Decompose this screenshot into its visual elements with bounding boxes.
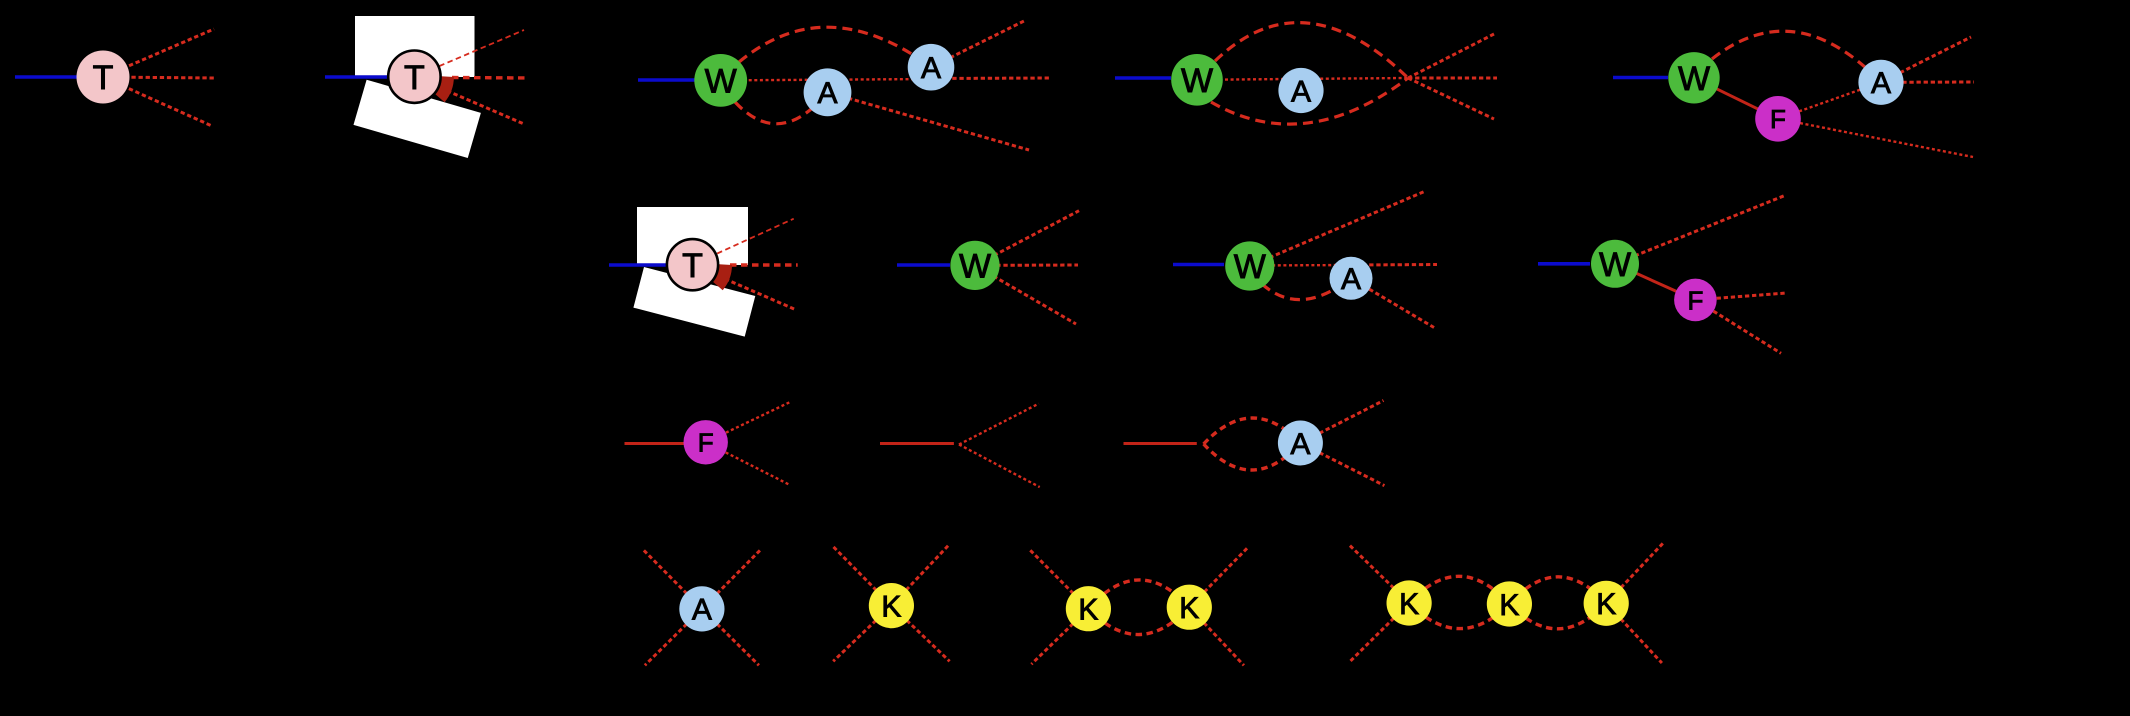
dotted leg down-right from F xyxy=(1695,300,1781,353)
dark red wedge xyxy=(713,264,732,290)
lower dashed arc of loop xyxy=(1204,443,1301,470)
thin dashed leg up-right xyxy=(693,219,794,265)
upper dashed arc K1-K2 xyxy=(1409,576,1509,604)
dotted leg up-right xyxy=(891,545,948,605)
blue external line xyxy=(609,263,670,267)
upper dashed arc W to A xyxy=(1712,31,1881,82)
vertex W xyxy=(1591,240,1639,288)
svg-text:T: T xyxy=(93,59,114,97)
blue external line xyxy=(638,78,695,82)
svg-text:W: W xyxy=(959,248,991,286)
svg-text:A: A xyxy=(921,52,941,85)
lower dashed arc K2-K3 xyxy=(1509,603,1606,629)
dotted leg down-left xyxy=(645,609,702,665)
svg-text:T: T xyxy=(682,247,703,285)
vertex K2 xyxy=(1167,585,1212,630)
lower dashed arc W to A1 xyxy=(735,92,828,123)
vertex W xyxy=(950,241,999,290)
vertex T xyxy=(77,51,130,104)
blue external line xyxy=(1115,76,1171,80)
svg-text:K: K xyxy=(1399,588,1419,621)
dotted leg down-right xyxy=(891,606,949,662)
fine dotted leg up-right xyxy=(959,404,1039,445)
vertex W xyxy=(694,54,747,107)
dotted leg down-right xyxy=(414,77,524,124)
dotted leg up-right xyxy=(975,211,1079,266)
svg-text:A: A xyxy=(1291,75,1311,108)
solid red line W to F xyxy=(1694,78,1778,119)
svg-text:K: K xyxy=(1596,588,1616,621)
svg-text:W: W xyxy=(1678,60,1710,98)
svg-text:W: W xyxy=(705,63,737,101)
vertex K2 xyxy=(1487,581,1532,626)
lower dashed arc W to junction xyxy=(1211,78,1408,124)
dotted leg down-right from junction xyxy=(1408,78,1494,119)
blue external line xyxy=(1538,262,1590,266)
dotted leg down-right K2 xyxy=(1189,607,1244,665)
chunky dotted after A xyxy=(1355,263,1437,267)
fine dotted leg F down-right xyxy=(1778,119,1973,157)
dotted leg up-right from A xyxy=(1300,401,1383,444)
vertex K3 xyxy=(1584,581,1629,626)
solid red line W to F xyxy=(1615,264,1695,300)
svg-text:F: F xyxy=(698,428,714,458)
dotted leg down-right xyxy=(103,77,212,126)
fine dotted leg down-right xyxy=(959,445,1040,488)
fine dotted leg down-right xyxy=(706,442,789,484)
lower dashed arc W to A xyxy=(1262,278,1351,300)
dotted leg from A2 up-right xyxy=(931,20,1026,67)
dotted leg up-right from junction xyxy=(1408,34,1494,78)
vertex W xyxy=(1668,52,1719,103)
svg-text:F: F xyxy=(1770,104,1786,134)
vertex W xyxy=(1225,241,1274,290)
vertex A2 xyxy=(908,44,955,91)
white patch lower (rotated) xyxy=(633,267,755,337)
vertex K1 xyxy=(1387,580,1432,625)
dotted leg right xyxy=(103,77,215,78)
svg-text:K: K xyxy=(881,590,901,623)
dotted leg from A1 down-right xyxy=(828,92,1030,150)
thin dashed leg up-right xyxy=(414,30,524,77)
vertex A xyxy=(679,586,724,631)
vertex T (outlined) xyxy=(667,239,718,290)
svg-text:K: K xyxy=(1179,592,1199,625)
dotted leg down-right from A xyxy=(1300,443,1384,486)
chunky dotted after A2 xyxy=(931,77,1050,81)
svg-text:A: A xyxy=(1290,428,1310,461)
dotted leg down-right K3 xyxy=(1606,603,1662,663)
blue external line xyxy=(897,263,950,267)
vertex W xyxy=(1171,54,1223,106)
white patch upper xyxy=(355,16,475,77)
dotted leg down-left K1 xyxy=(1031,609,1088,665)
dotted leg up-right from W xyxy=(1250,191,1426,266)
vertex A xyxy=(1858,60,1903,105)
svg-text:A: A xyxy=(1341,263,1361,296)
blue external line xyxy=(1173,263,1224,267)
dotted leg A up-right xyxy=(1881,37,1971,82)
blue external line xyxy=(325,75,392,79)
svg-text:A: A xyxy=(817,77,837,110)
upper dashed arc W to A2 xyxy=(739,27,931,67)
dotted leg down-right from A xyxy=(1351,278,1434,327)
vertex F xyxy=(1674,279,1717,322)
vertex A xyxy=(1278,68,1323,113)
fine dotted line W to junction xyxy=(1197,78,1408,80)
dotted leg up-right from W xyxy=(1615,195,1786,264)
upper dashed arc W to junction xyxy=(1215,23,1408,78)
upper dashed arc K2-K3 xyxy=(1509,577,1606,604)
vertex K1 xyxy=(1066,586,1111,631)
dotted leg up-left K1 xyxy=(1030,550,1088,609)
dotted leg down-left K1 xyxy=(1350,603,1409,662)
svg-text:A: A xyxy=(1871,67,1891,100)
vertex F xyxy=(1755,96,1801,142)
solid red external line xyxy=(1124,442,1197,445)
white patch lower (rotated) xyxy=(353,80,480,158)
dotted leg down-right xyxy=(975,265,1076,324)
svg-text:K: K xyxy=(1499,589,1519,622)
dotted leg up-right xyxy=(702,550,760,609)
dotted leg right xyxy=(975,264,1078,267)
dotted leg up-right xyxy=(103,29,214,77)
svg-text:W: W xyxy=(1599,246,1631,284)
solid red external line xyxy=(880,442,954,445)
dotted leg up-right K2 xyxy=(1189,547,1248,608)
svg-text:W: W xyxy=(1234,248,1266,286)
vertex A xyxy=(1330,257,1373,300)
dotted leg up-left K1 xyxy=(1349,544,1410,603)
lower dashed arc K1-K2 xyxy=(1088,607,1189,634)
vertex K xyxy=(869,583,914,628)
white patch upper xyxy=(637,207,748,265)
dotted leg down-right xyxy=(702,609,759,665)
dotted leg right from F xyxy=(1695,293,1786,300)
fine dotted W to A xyxy=(1250,264,1355,267)
svg-text:F: F xyxy=(1687,285,1703,315)
vertex F xyxy=(684,420,728,464)
vertex A xyxy=(1278,421,1323,466)
dotted leg up-left xyxy=(644,550,702,609)
solid red external line xyxy=(625,442,685,445)
svg-text:T: T xyxy=(404,59,425,97)
svg-text:W: W xyxy=(1181,62,1213,100)
blue external line xyxy=(1613,76,1668,80)
svg-text:K: K xyxy=(1078,594,1098,627)
fine dotted line W to A2 xyxy=(721,79,931,80)
dotted leg down-right xyxy=(693,265,796,310)
chunky dashed leg right xyxy=(452,76,528,80)
lower dashed arc K1-K2 xyxy=(1409,603,1509,629)
dotted leg A right xyxy=(1881,81,1974,84)
vertex T (outlined) xyxy=(388,50,440,102)
dotted leg right from junction xyxy=(1408,77,1497,80)
fine dotted leg up-right xyxy=(706,402,791,443)
dotted leg up-left xyxy=(833,547,891,606)
fine dotted F to A xyxy=(1778,82,1881,119)
upper dashed arc K1-K2 xyxy=(1088,580,1189,609)
dark red wedge xyxy=(435,76,454,102)
blue external line xyxy=(15,75,77,79)
upper dashed arc of loop xyxy=(1204,418,1301,444)
svg-text:A: A xyxy=(692,594,712,627)
dotted leg down-left xyxy=(833,606,891,662)
vertex A1 xyxy=(804,68,852,116)
dotted leg up-right K3 xyxy=(1606,543,1663,603)
chunky dashed leg right xyxy=(730,263,798,266)
